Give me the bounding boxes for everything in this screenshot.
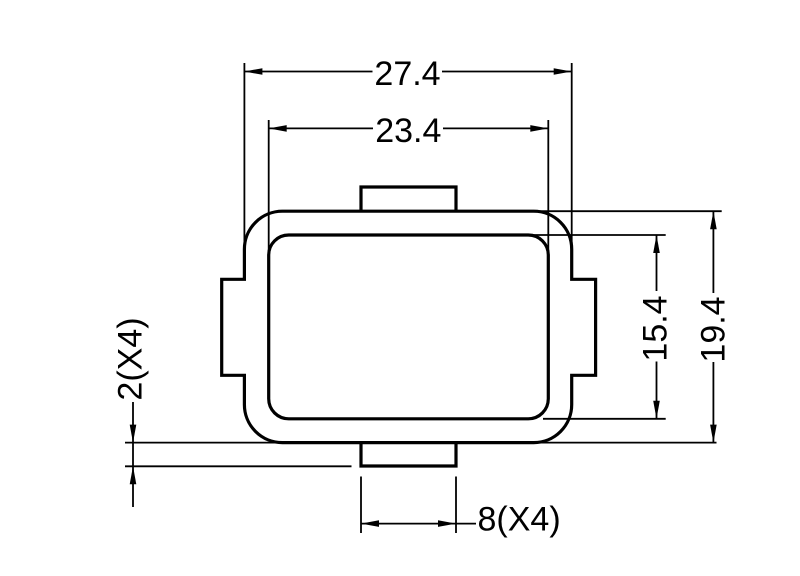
dimension 23.4 line bbox=[269, 127, 549, 129]
dimension 23.4 arrow left bbox=[269, 125, 287, 132]
dimension text 2(X4) bbox=[112, 317, 150, 400]
dimension 15.4 arrow bottom bbox=[653, 401, 660, 419]
dimension 27.4 arrow left bbox=[244, 68, 262, 75]
dimension 8(X4) line bbox=[361, 523, 456, 525]
svg-text:8(X4): 8(X4) bbox=[478, 501, 561, 539]
dimension 2(X4) line middle segment bbox=[132, 443, 134, 467]
dimension 2(X4) line upper segment bbox=[132, 402, 134, 443]
dimension 2(X4) line lower segment bbox=[132, 466, 134, 507]
dimension 19.4 extension line top bbox=[537, 210, 722, 212]
svg-text:15.4: 15.4 bbox=[637, 295, 675, 361]
dimension 2(X4) arrow down bbox=[130, 425, 137, 443]
dimension 8(X4) extension line left bbox=[360, 477, 362, 534]
dimension 19.4 arrow top bbox=[710, 211, 717, 229]
dimension 19.4 and 2(X4) shared extension line bottom bbox=[125, 442, 717, 444]
dimension 2(X4) extension line bottom bbox=[125, 465, 352, 467]
dimension 8(X4) extension line right bbox=[455, 477, 457, 534]
outer body outline with integrated left and right tabs bbox=[222, 211, 596, 442]
dimension 15.4 extension line top bbox=[526, 234, 666, 236]
dimension 19.4 arrow bottom bbox=[710, 425, 717, 443]
top tab bbox=[361, 187, 456, 212]
dimension 19.4 line bbox=[712, 211, 714, 442]
svg-text:2(X4): 2(X4) bbox=[112, 317, 150, 400]
dimension 2(X4) arrow up bbox=[130, 466, 137, 484]
dimension 23.4 extension line right bbox=[547, 120, 549, 255]
dimension 8(X4) arrow right bbox=[438, 520, 456, 527]
inner face outline bbox=[269, 235, 549, 419]
dimension 15.4 arrow top bbox=[653, 235, 660, 253]
svg-text:19.4: 19.4 bbox=[695, 296, 733, 362]
dimension 27.4 extension line left bbox=[243, 63, 245, 256]
dimension text 23.4 bbox=[375, 112, 441, 150]
svg-text:27.4: 27.4 bbox=[374, 55, 440, 93]
dimension text 15.4 bbox=[637, 295, 675, 361]
dimension 23.4 extension line left bbox=[268, 120, 270, 255]
bottom tab bbox=[361, 442, 456, 466]
dimension 15.4 extension line bottom bbox=[543, 418, 666, 420]
dimension text 27.4 bbox=[374, 55, 440, 93]
dimension text 8(X4) bbox=[478, 501, 561, 539]
dimension 27.4 extension line right bbox=[571, 63, 573, 250]
dimension text 19.4 bbox=[695, 296, 733, 362]
dimension 8(X4) leader to text bbox=[456, 523, 476, 525]
dimension 8(X4) arrow left bbox=[361, 520, 379, 527]
svg-text:23.4: 23.4 bbox=[375, 112, 441, 150]
dimension 27.4 arrow right bbox=[554, 68, 572, 75]
dimension 23.4 arrow right bbox=[530, 125, 548, 132]
dimension 15.4 line bbox=[656, 235, 658, 419]
dimension 27.4 line bbox=[244, 71, 571, 73]
